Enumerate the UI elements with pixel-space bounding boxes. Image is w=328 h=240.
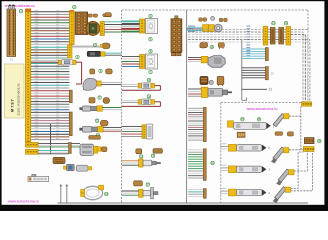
ignition module block xyxy=(304,138,314,144)
brake switch body xyxy=(146,19,158,34)
spark plug cable row 4 xyxy=(221,188,271,196)
ECU connector X1 body xyxy=(7,9,16,56)
rear lambda connector xyxy=(201,87,208,97)
instrument cluster ladder 3 xyxy=(188,189,206,199)
ignition coil harness connector xyxy=(302,102,312,106)
canister purge valve body xyxy=(146,124,152,139)
plug 1 wire xyxy=(289,115,301,117)
node callout 11 xyxy=(95,119,99,123)
node callout 7 xyxy=(149,70,152,74)
ECU title block xyxy=(5,64,24,118)
node callout 13 xyxy=(105,192,109,196)
wires to purge valve xyxy=(122,127,142,137)
interior bus vertical xyxy=(241,40,243,100)
washer cap xyxy=(209,80,213,84)
ground bus bottom xyxy=(58,202,309,204)
ignition switch connector xyxy=(201,56,208,62)
air temp sensor pads xyxy=(89,98,110,104)
bus bottom corner xyxy=(242,98,247,101)
junction brown bar B xyxy=(279,28,284,45)
svg-text:21101-1411020-30/31/32: 21101-1411020-30/31/32 xyxy=(17,83,21,115)
vehicle speed sensor xyxy=(87,51,121,56)
wires to clutch connectors xyxy=(187,27,203,30)
spark plug 1 xyxy=(273,114,289,127)
relay/fuse grid block xyxy=(75,12,87,35)
plug 4 wire a xyxy=(291,152,304,188)
spark plug cable row 1 xyxy=(228,121,275,130)
node callout 4 xyxy=(149,38,152,42)
ground wire 1 xyxy=(60,184,63,203)
blue wire labels right of divider xyxy=(188,26,195,32)
junction connector yellow A xyxy=(263,27,268,46)
lower pad connector xyxy=(89,136,101,140)
fuel rail cylinder xyxy=(76,165,91,171)
node callout 21 xyxy=(272,22,276,26)
node callout 2 xyxy=(73,5,76,9)
node callout 8 xyxy=(99,69,102,73)
svg-text:М 7.9.7: М 7.9.7 xyxy=(11,99,15,112)
cigarette lighter body xyxy=(200,77,208,85)
rear lambda sensor body xyxy=(208,89,232,97)
brake switch connector xyxy=(140,19,145,33)
svg-text:X1: X1 xyxy=(10,58,14,62)
coolant temp sensor xyxy=(79,106,121,111)
pins above ignition module xyxy=(275,132,293,136)
throttle body connector xyxy=(53,157,65,163)
wires from lower bars xyxy=(38,144,80,154)
ground wire 2 xyxy=(66,184,69,203)
dashed harness box (middle) xyxy=(121,10,123,203)
harness box divider xyxy=(186,10,188,203)
node callout 18 xyxy=(210,45,214,49)
comb connector bar upper xyxy=(69,90,72,102)
wires to vehicle speed sensor xyxy=(0,0,1,1)
plug 2 wire xyxy=(289,149,303,151)
throttle position sensor xyxy=(83,78,121,90)
node callout 12 xyxy=(96,134,100,138)
dark branch end bar xyxy=(265,67,268,80)
small pad left of harness box xyxy=(105,13,111,17)
node callout 25 xyxy=(318,139,322,143)
cyan branch end bar xyxy=(265,48,268,61)
dark branch wires xyxy=(242,68,266,78)
spark plug 4 xyxy=(273,187,291,203)
spark plug cable row 2 xyxy=(221,143,271,151)
wires round connector to harness xyxy=(104,22,139,32)
node callout 16 xyxy=(151,154,155,158)
pin pair B top middle xyxy=(219,18,227,22)
node callout 6a xyxy=(149,50,152,54)
node callout 6 xyxy=(93,43,96,47)
node callout 17 xyxy=(146,183,150,187)
plug 4 wire b xyxy=(291,151,313,190)
fuel pump module oval xyxy=(81,185,104,200)
wires junction to coil harness xyxy=(291,30,310,102)
small pad xyxy=(218,43,224,49)
grommet ring xyxy=(214,24,222,32)
round bulkhead connector xyxy=(86,21,100,35)
cyan branch wires xyxy=(242,49,266,59)
wires to small oval connector xyxy=(72,46,100,47)
fuel pump relay fuse xyxy=(122,99,160,106)
node callout 14 xyxy=(147,95,151,99)
small connector grid low xyxy=(237,132,245,137)
wires to clutch switch xyxy=(122,56,140,66)
diagnostic connector bar xyxy=(28,174,49,181)
main relay fuse xyxy=(122,83,160,90)
knock sensor pads xyxy=(90,69,112,74)
small oval connector xyxy=(100,43,110,49)
clutch switch body xyxy=(146,54,158,69)
wire labels column blue xyxy=(246,26,250,59)
small pad connector low xyxy=(134,181,143,186)
wires to rear lambda xyxy=(188,89,201,96)
round connector pin strip xyxy=(100,22,104,36)
spark plug 2 xyxy=(271,147,289,163)
node callout 9 xyxy=(98,96,101,100)
dashed harness box right edge xyxy=(307,10,309,102)
node callout 10 xyxy=(147,78,151,82)
instrument cluster ladder 1 xyxy=(188,107,206,141)
svg-text:www.autoshema.ru: www.autoshema.ru xyxy=(7,200,39,204)
junction connector yellow B xyxy=(286,27,291,46)
node callout 3 xyxy=(149,14,152,18)
wires to brake switch xyxy=(122,21,140,31)
junction brown bar A xyxy=(270,28,275,45)
node callout 1 xyxy=(19,10,22,14)
node callout 23 xyxy=(241,118,245,122)
junction bus vertical left xyxy=(50,124,52,154)
MAP sensor xyxy=(64,164,75,170)
node callout 22 xyxy=(284,22,288,26)
ECU connector top pins xyxy=(9,5,15,10)
oxygen sensor xyxy=(79,126,121,132)
wires to ignition switch xyxy=(188,58,201,62)
fuel pump inline fuse xyxy=(31,60,82,84)
small pad connectors mid xyxy=(136,149,163,154)
spark plug 3 xyxy=(276,169,294,185)
small connector pair right xyxy=(97,147,107,152)
small pins above round connector xyxy=(88,14,111,17)
node callout 15 xyxy=(140,155,144,159)
node callout 24 xyxy=(257,118,261,122)
pin pair A top middle xyxy=(199,18,207,22)
svg-text:www.autolada.ru: www.autolada.ru xyxy=(4,4,36,8)
node callout 5 xyxy=(76,55,79,59)
coil feed vertical xyxy=(301,106,304,149)
wires to crankshaft sensor xyxy=(122,161,139,165)
lower yellow connector bar 2 xyxy=(26,149,39,154)
lower yellow connector bar 1 xyxy=(26,142,39,147)
dashed wires to junction connectors xyxy=(188,30,286,43)
clutch switch connector xyxy=(140,55,145,69)
wire bundle ECU X1 to relay connector xyxy=(31,10,69,55)
comb connector bar C xyxy=(69,143,72,154)
oval sensor pad xyxy=(100,120,108,126)
idle air control valve xyxy=(80,144,98,155)
plug 3 wire xyxy=(294,151,307,171)
comb connector bar lower xyxy=(69,112,72,136)
crankshaft sensor connector xyxy=(139,159,161,167)
instrument cluster ladder 2 xyxy=(188,149,206,181)
inner box left edge xyxy=(220,103,222,203)
central junction block xyxy=(171,16,182,56)
small grey bolt xyxy=(211,16,215,20)
node callout 20 xyxy=(211,161,215,165)
ignition switch body xyxy=(208,56,225,68)
small connector below X2 xyxy=(68,45,73,58)
yellow connector pair mid xyxy=(203,25,215,32)
wires to camshaft sensor xyxy=(122,191,139,195)
inner box top edge xyxy=(221,102,308,104)
spark plug cable row 3 xyxy=(221,165,271,173)
canister purge valve connector xyxy=(142,125,146,139)
single branch wire xyxy=(242,88,272,91)
harness connector X2 strip xyxy=(70,11,75,45)
wire bundle ECU X1 lower rows xyxy=(31,57,69,140)
camshaft sensor connector xyxy=(139,187,158,198)
ECU pin strip connector xyxy=(26,9,31,142)
svg-text:www.autoshema.ru: www.autoshema.ru xyxy=(246,107,278,111)
ignition module connector xyxy=(303,147,314,152)
dashed harness box top edge xyxy=(122,9,308,11)
relay pad xyxy=(217,77,224,87)
horn blob xyxy=(200,42,208,48)
